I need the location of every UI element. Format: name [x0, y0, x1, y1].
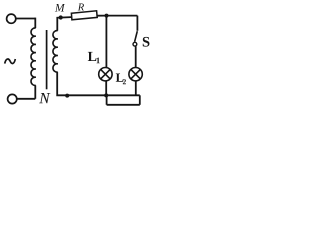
transformer secondary winding: [53, 31, 58, 73]
AC source symbol ~: [5, 59, 16, 64]
node M dot: [59, 15, 63, 19]
junction dot bottom of L1: [104, 93, 108, 97]
wire from top terminal to primary coil: [16, 18, 35, 20]
wire secondary bottom to node N: [57, 72, 140, 95]
lamp L1: [99, 68, 112, 81]
wire lamp L2 bottom: [135, 81, 137, 95]
label M: [55, 4, 65, 12]
label L2: [116, 74, 124, 82]
lamp L2: [129, 68, 142, 81]
switch S blade: [135, 31, 138, 42]
AC source terminal bottom-left: [8, 94, 17, 103]
junction dot above L1: [105, 14, 109, 18]
label N: [39, 93, 50, 103]
bottom loop wire left side: [106, 95, 108, 104]
wire junction to lamp L1: [105, 16, 107, 68]
wire down from primary coil bottom: [34, 85, 36, 98]
wire resistor to junction: [97, 15, 137, 17]
wire secondary top to node M: [57, 17, 71, 31]
wire to bottom terminal: [17, 98, 35, 100]
switch S contact circle: [133, 42, 137, 46]
label L1: [88, 52, 97, 61]
wire switch to lamp L2: [135, 46, 137, 67]
bottom loop wire right side: [139, 95, 141, 105]
wire down to switch: [136, 16, 138, 31]
bottom loop wire bottom side: [107, 104, 140, 106]
node N dot: [65, 94, 69, 98]
wire down to primary coil top: [34, 18, 36, 28]
wire lamp L1 bottom: [105, 81, 107, 95]
AC source terminal top-left: [7, 14, 16, 23]
transformer core: [46, 30, 48, 89]
resistor R box: [71, 11, 97, 20]
label R: [78, 4, 84, 11]
label S: [143, 37, 150, 47]
transformer primary winding: [31, 28, 36, 86]
